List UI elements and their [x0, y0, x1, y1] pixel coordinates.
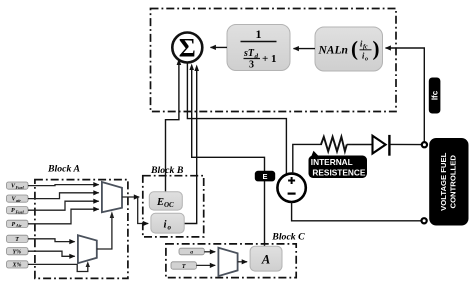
- svg-text:VOLTAGE FUEL: VOLTAGE FUEL: [439, 152, 448, 211]
- svg-text:): ): [373, 37, 380, 61]
- svg-text:X%: X%: [12, 263, 22, 269]
- top dash-dot box: [151, 9, 397, 112]
- svg-text:NALn: NALn: [318, 45, 348, 57]
- a label: [179, 248, 204, 255]
- wire X% to small mux bottom: [28, 264, 88, 271]
- svg-text:o: o: [365, 57, 368, 63]
- branch down to io: [138, 197, 149, 224]
- input label VFuel: [7, 182, 29, 190]
- T label: [171, 262, 196, 270]
- NALn block: [315, 27, 383, 71]
- svg-text:Y%: Y%: [13, 249, 22, 255]
- io block: [151, 213, 184, 233]
- wire: sigma output down right down to voltage source: [187, 63, 286, 175]
- wire VFuel to mux: [28, 185, 99, 186]
- wire PFuel to mux: [28, 201, 99, 210]
- input label Vair: [7, 195, 29, 203]
- svg-text:d: d: [255, 53, 259, 61]
- big mux output wire with arrow: [122, 196, 139, 198]
- wire: v source + up and right to resistor: [293, 144, 322, 173]
- wire T to mux C: [196, 264, 215, 266]
- wire: E tag line from A block up left and into sigma: [192, 67, 265, 246]
- A block: [250, 246, 282, 271]
- input label T: [7, 235, 29, 243]
- svg-text:Σ: Σ: [179, 34, 196, 63]
- voltage fuel controlled block: [429, 138, 468, 226]
- transfer function block 1/(sTd/3+1): [227, 25, 290, 71]
- diode: [373, 135, 390, 156]
- wire: EOC up to sigma: [166, 62, 179, 192]
- svg-text:RESISTENCE: RESISTENCE: [312, 167, 365, 177]
- wire PAir to mux: [28, 209, 99, 224]
- wire small mux to big mux: [97, 215, 112, 249]
- svg-text:(: (: [351, 37, 358, 61]
- svg-text:o: o: [168, 223, 172, 231]
- svg-text:air: air: [16, 198, 21, 203]
- mux C: [218, 248, 237, 276]
- svg-text:T: T: [182, 264, 186, 270]
- svg-text:3: 3: [249, 60, 254, 71]
- wire tf block to sigma: [211, 46, 228, 48]
- svg-text:E: E: [156, 197, 164, 208]
- svg-text:P: P: [12, 222, 16, 228]
- svg-text:T: T: [15, 237, 19, 243]
- wire T to small mux: [28, 239, 75, 242]
- input label PFuel: [7, 207, 29, 215]
- wire Vair to mux: [28, 193, 99, 199]
- wire resistor to diode: [347, 144, 372, 146]
- input label PAir: [7, 220, 29, 228]
- svg-text:CONTROLLED: CONTROLLED: [449, 155, 458, 209]
- bottom port: [422, 218, 427, 223]
- summation op sigma: [172, 33, 202, 63]
- svg-text:E: E: [262, 172, 267, 181]
- INTERNAL RESISTENCE tag: [309, 151, 368, 178]
- svg-text:Air: Air: [15, 223, 22, 228]
- input label X%: [7, 261, 29, 269]
- big mux: [102, 182, 122, 212]
- svg-text:Block C: Block C: [271, 231, 305, 242]
- svg-text:Fuel: Fuel: [16, 209, 25, 214]
- Ifc tag: [429, 78, 441, 114]
- svg-text:Ifc: Ifc: [430, 90, 439, 100]
- wire a to mux C: [204, 251, 215, 253]
- EOC block: [149, 192, 182, 210]
- input label Y%: [7, 248, 29, 256]
- E tag: [255, 171, 275, 182]
- svg-text:Block A: Block A: [47, 164, 80, 175]
- svg-text:+ 1: + 1: [262, 53, 277, 65]
- wire ifc feedback: from top port up and left into NALn: [386, 48, 425, 142]
- svg-text:a: a: [190, 250, 193, 256]
- svg-text:Fuel: Fuel: [16, 185, 25, 190]
- wire: io up into sigma: [184, 68, 196, 224]
- svg-text:OC: OC: [164, 201, 174, 209]
- wire NALn to tf block: [294, 48, 316, 50]
- wire Y% to small mux: [28, 251, 75, 256]
- svg-text:INTERNAL: INTERNAL: [311, 157, 353, 167]
- svg-text:Block B: Block B: [150, 165, 184, 176]
- voltage source: [277, 174, 305, 202]
- top port: [422, 142, 427, 147]
- svg-text:1: 1: [256, 27, 262, 41]
- wire mux C to A: [238, 261, 248, 263]
- svg-text:sT: sT: [243, 48, 255, 59]
- wire: v source - down and right to bottom port: [292, 202, 422, 221]
- resistor: [321, 137, 347, 152]
- small mux: [78, 235, 97, 263]
- svg-text:A: A: [261, 253, 270, 267]
- svg-text:P: P: [11, 208, 15, 214]
- wire diode to top port: [390, 143, 422, 145]
